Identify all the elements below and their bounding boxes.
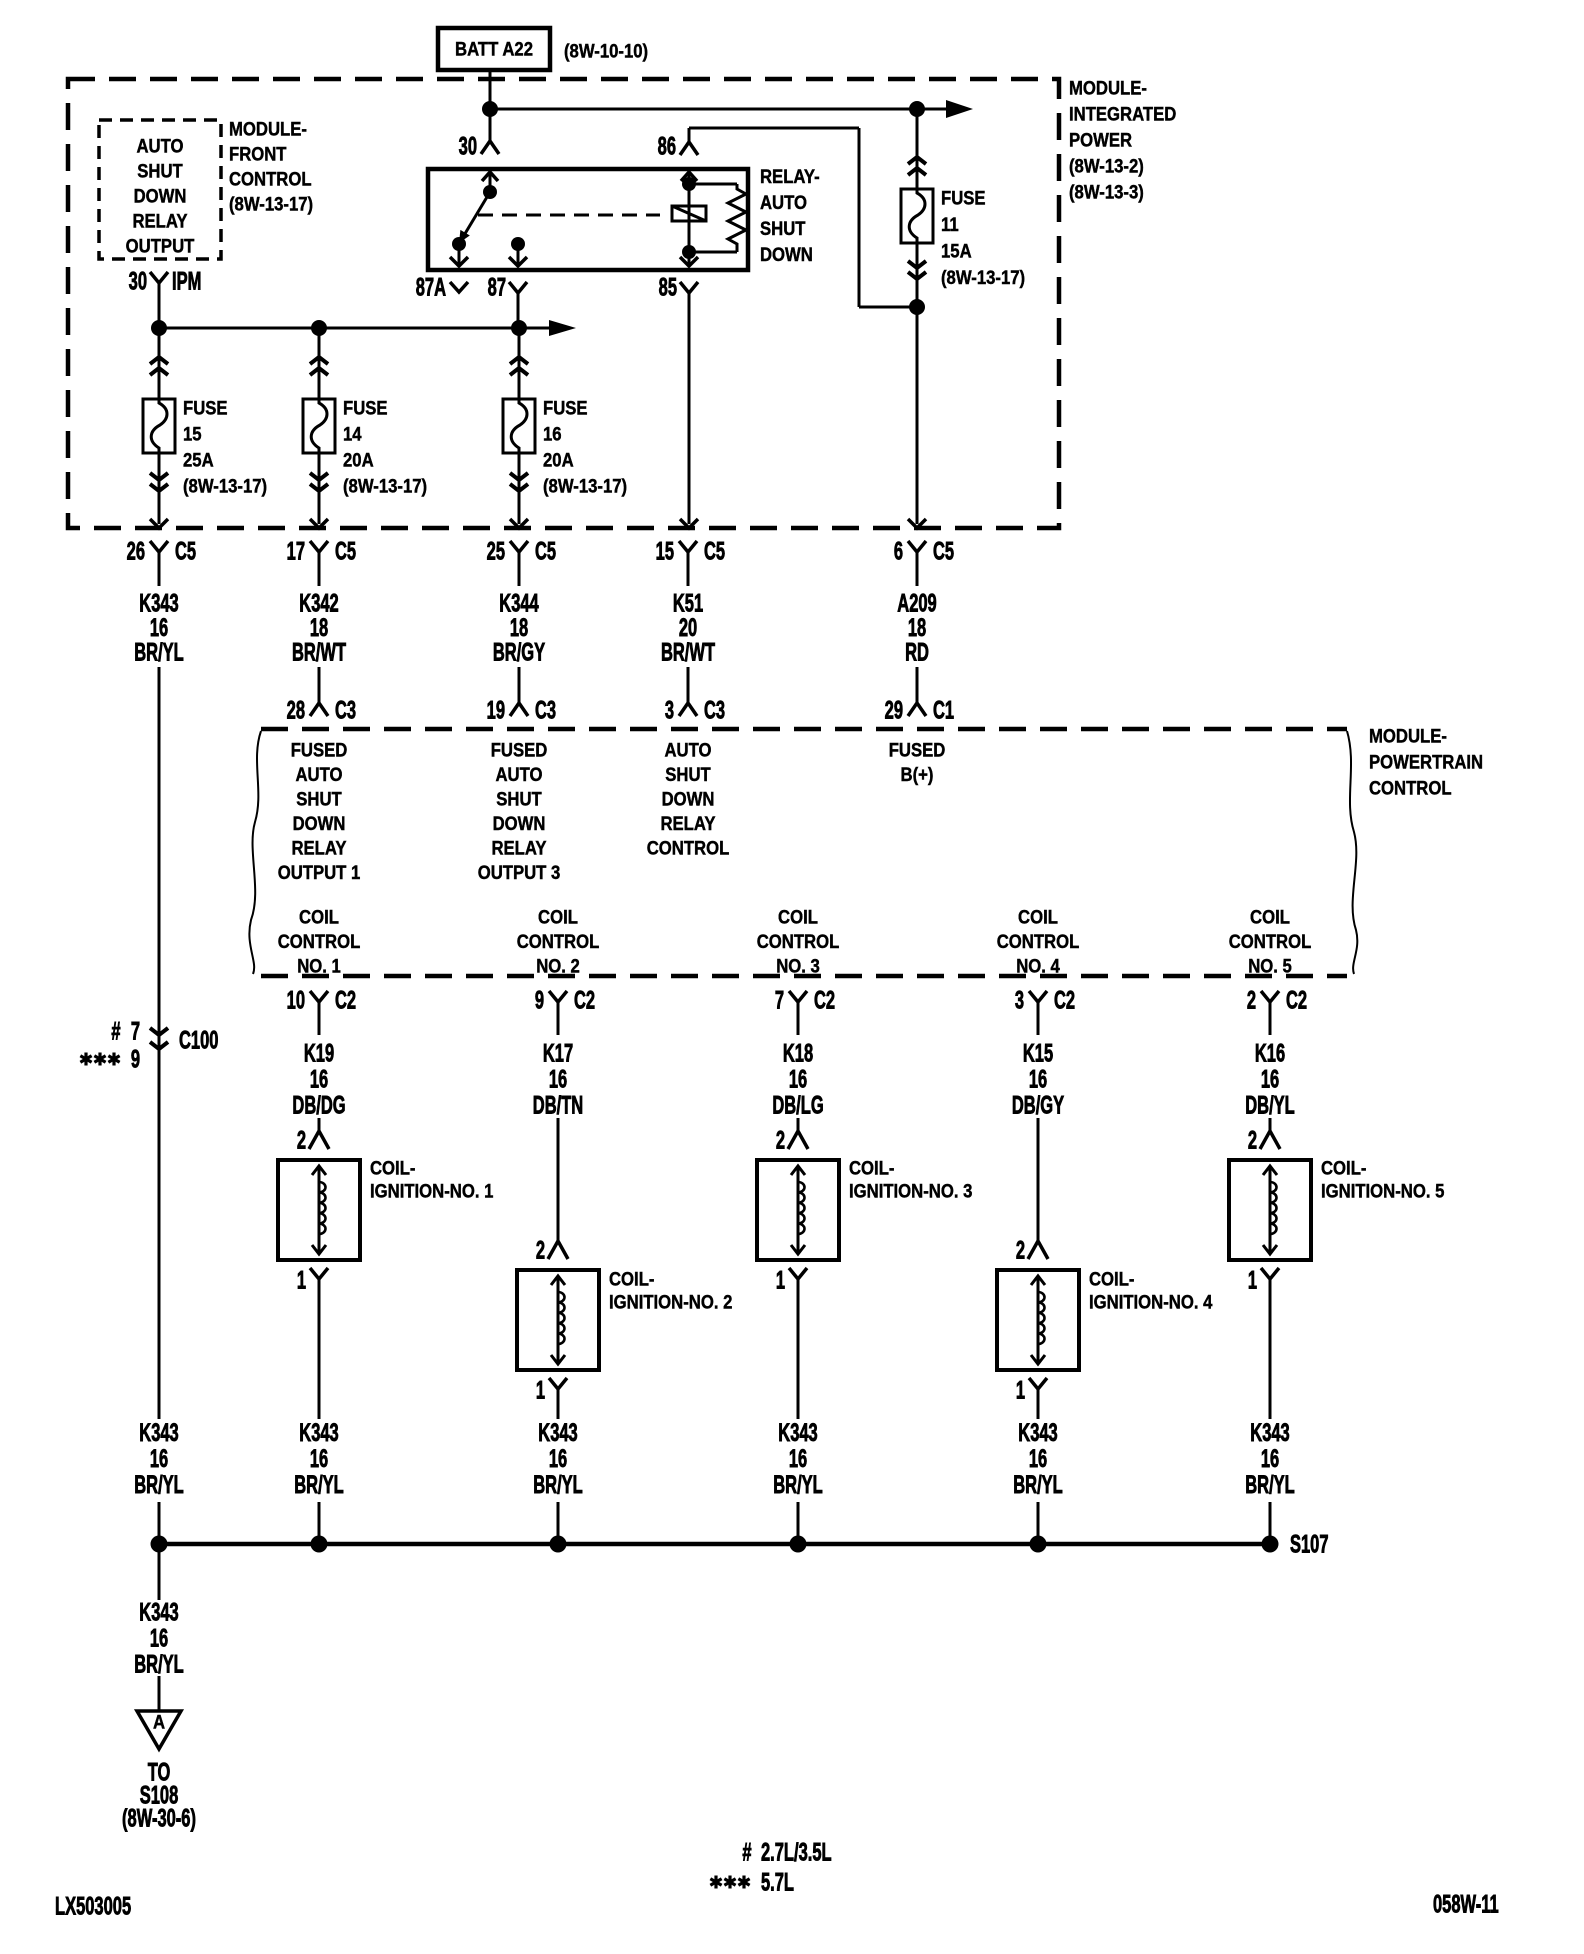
- svg-text:16: 16: [310, 1066, 329, 1093]
- wire label K343 BR/YL: [134, 590, 184, 666]
- wire label K343 BR/YL: [533, 1420, 583, 1499]
- svg-text:K51: K51: [673, 590, 703, 617]
- svg-text:(8W-30-6): (8W-30-6): [122, 1805, 196, 1832]
- splice S107 label: [1290, 1531, 1329, 1558]
- auto shut down relay output label box (IPM): [99, 120, 221, 259]
- PCM output label coil control no. 3: [757, 907, 840, 977]
- connector C2 pin 3: [1015, 987, 1075, 1035]
- svg-text:18: 18: [310, 615, 329, 642]
- svg-text:18: 18: [908, 615, 927, 642]
- coil 5 name label: [1321, 1158, 1444, 1202]
- svg-text:16: 16: [1261, 1446, 1280, 1473]
- svg-text:K343: K343: [139, 1599, 179, 1626]
- relay wire to pin 87 with arrow: [509, 244, 527, 266]
- sheet code LX503005: [55, 1893, 131, 1920]
- wire to splice S107 bus: [318, 1502, 321, 1544]
- PCM input label fused auto shut down relay output 3: [478, 740, 561, 884]
- svg-text:BR/YL: BR/YL: [134, 639, 184, 666]
- wire splice to K343 lower run: [158, 1544, 161, 1600]
- coil 2 name label: [609, 1269, 732, 1313]
- svg-text:FUSE: FUSE: [543, 398, 588, 419]
- wire label K343 BR/YL: [294, 1420, 344, 1499]
- fuse 14 symbol: [303, 399, 335, 453]
- wire label K343 BR/YL lower: [134, 1599, 184, 1678]
- relay wire to pin 85 with arrow: [680, 252, 698, 266]
- svg-text:28: 28: [287, 697, 306, 724]
- svg-text:19: 19: [487, 697, 505, 724]
- svg-text:FUSED: FUSED: [491, 740, 548, 761]
- svg-text:BR/WT: BR/WT: [661, 639, 715, 666]
- ignition coil no. 5 (COIL-IGNITION-NO. 5): [1229, 1160, 1311, 1260]
- svg-text:FUSED: FUSED: [889, 740, 946, 761]
- connector chevrons above fuse 11: [908, 157, 926, 175]
- svg-text:NO. 3: NO. 3: [776, 956, 820, 977]
- node B2 junction dot at fuse 11 feed: [909, 101, 925, 117]
- svg-text:FUSE: FUSE: [343, 398, 388, 419]
- relay pin 87A connector: [416, 274, 468, 301]
- wire fuse 15 to connector C5: [158, 453, 161, 524]
- relay internal node dot pin85: [682, 245, 696, 259]
- legend # 2.7L/3.5L: [742, 1839, 831, 1866]
- svg-text:20A: 20A: [543, 450, 574, 471]
- svg-text:MODULE-: MODULE-: [1369, 726, 1447, 747]
- off-page connector A triangle: [137, 1711, 181, 1749]
- svg-text:18: 18: [510, 615, 529, 642]
- ignition coil no. 2 (COIL-IGNITION-NO. 2): [517, 1270, 599, 1370]
- svg-text:COIL-: COIL-: [1089, 1269, 1134, 1290]
- coil 3 name label: [849, 1158, 972, 1202]
- wire label K51 BR/WT: [661, 590, 715, 666]
- IPM pin 30 connector: [129, 268, 202, 295]
- svg-text:FUSED: FUSED: [291, 740, 348, 761]
- connector C2 pin 2: [1247, 987, 1307, 1035]
- fuse 15 label: [183, 398, 267, 497]
- connector C100 chevrons: [150, 1028, 168, 1049]
- wire coil 3 pin 1 to splice: [797, 1308, 800, 1419]
- connector C3 pin 3: [665, 690, 725, 725]
- wire label K15 DB/GY: [1012, 1040, 1064, 1119]
- coil 1 pin 1 connector: [297, 1267, 328, 1308]
- svg-text:15: 15: [183, 424, 202, 445]
- svg-text:86: 86: [658, 133, 677, 160]
- svg-text:C5: C5: [535, 538, 556, 565]
- wire label K344 BR/GY: [493, 590, 545, 666]
- splice junction dot: [550, 1536, 567, 1553]
- svg-text:C3: C3: [704, 697, 725, 724]
- svg-text:CONTROL: CONTROL: [517, 931, 600, 952]
- connector chevrons above fuse 14: [310, 357, 328, 375]
- svg-text:30: 30: [459, 133, 477, 160]
- svg-text:DOWN: DOWN: [293, 813, 346, 834]
- wire label A209 RD: [897, 590, 936, 666]
- module-integrated power dashed enclosure: [68, 79, 1059, 528]
- svg-text:15A: 15A: [941, 241, 972, 262]
- coil 4 pin 2 connector: [1016, 1237, 1048, 1264]
- svg-text:(8W-13-17): (8W-13-17): [543, 476, 627, 497]
- wire to ignition coil 3 pin 2: [797, 1118, 800, 1131]
- wire label K17 DB/TN: [533, 1040, 583, 1119]
- svg-text:16: 16: [549, 1446, 568, 1473]
- svg-text:CONTROL: CONTROL: [757, 931, 840, 952]
- relay coil vertical wire: [688, 184, 691, 252]
- arrow fuse 11 wire at border: [908, 519, 926, 528]
- svg-text:6: 6: [894, 538, 903, 565]
- relay control dashed linkage: [478, 214, 660, 217]
- svg-text:K343: K343: [1018, 1420, 1058, 1447]
- coil 3 pin 1 connector: [776, 1267, 807, 1308]
- svg-text:NO. 1: NO. 1: [297, 956, 341, 977]
- svg-text:9: 9: [131, 1046, 140, 1073]
- svg-text:K343: K343: [538, 1420, 578, 1447]
- node B1 junction dot: [482, 101, 498, 117]
- svg-text:NO. 2: NO. 2: [536, 956, 580, 977]
- wire to ignition coil 4 pin 2: [1037, 1118, 1040, 1241]
- svg-text:3: 3: [665, 697, 674, 724]
- node bus dot col A: [151, 320, 167, 336]
- svg-text:2.7L/3.5L: 2.7L/3.5L: [761, 1839, 832, 1866]
- connector C5 pin 26: [127, 538, 197, 586]
- wire to splice S107 bus: [557, 1502, 560, 1544]
- relay pin 85 connector: [659, 274, 698, 301]
- svg-text:C2: C2: [1286, 987, 1307, 1014]
- svg-text:K343: K343: [299, 1420, 339, 1447]
- reference label (8W-10-10): [564, 41, 648, 62]
- svg-text:16: 16: [1029, 1446, 1048, 1473]
- connector C5 pin 15: [656, 538, 726, 586]
- svg-text:(8W-13-17): (8W-13-17): [183, 476, 267, 497]
- arrow fuse 14 wire at border: [310, 519, 328, 528]
- svg-text:1: 1: [776, 1267, 785, 1294]
- PCM output label auto shut down relay control: [647, 740, 730, 859]
- wire node B3 to connector C5-6: [916, 307, 919, 524]
- arrow fuse 16 wire at border: [510, 519, 528, 528]
- note marker # 7: [111, 1018, 140, 1045]
- svg-text:K343: K343: [778, 1420, 818, 1447]
- svg-text:5.7L: 5.7L: [761, 1869, 794, 1896]
- svg-text:16: 16: [549, 1066, 568, 1093]
- wire to connector C3 pin 3: [687, 667, 690, 702]
- splice S107 ground bus: [159, 1542, 1270, 1547]
- connector C100 label: [179, 1027, 218, 1054]
- svg-text:BR/YL: BR/YL: [1245, 1472, 1295, 1499]
- svg-text:C2: C2: [574, 987, 595, 1014]
- battery feed box BATT A22: [438, 28, 550, 70]
- svg-text:RD: RD: [905, 639, 929, 666]
- wire to connector C3 pin 28: [318, 667, 321, 702]
- svg-text:10: 10: [287, 987, 305, 1014]
- module-powertrain control torn right edge: [1347, 731, 1357, 974]
- relay K1 pin 30 connector: [459, 109, 499, 161]
- svg-text:#: #: [742, 1839, 751, 1866]
- svg-text:NO. 5: NO. 5: [1248, 956, 1292, 977]
- svg-text:(8W-13-2): (8W-13-2): [1069, 156, 1144, 177]
- svg-text:3: 3: [1015, 987, 1024, 1014]
- svg-text:K17: K17: [543, 1040, 573, 1067]
- wire to ignition coil 1 pin 2: [318, 1118, 321, 1131]
- svg-text:20: 20: [679, 615, 697, 642]
- svg-text:FUSE: FUSE: [941, 188, 986, 209]
- connector C3 pin 28: [287, 690, 357, 725]
- svg-text:IGNITION-NO. 4: IGNITION-NO. 4: [1089, 1292, 1212, 1313]
- svg-text:25A: 25A: [183, 450, 214, 471]
- node bus dot col B: [311, 320, 327, 336]
- splice junction dot: [1262, 1536, 1279, 1553]
- svg-text:K342: K342: [299, 590, 338, 617]
- svg-text:RELAY: RELAY: [660, 813, 715, 834]
- svg-text:16: 16: [150, 615, 169, 642]
- svg-text:29: 29: [885, 697, 903, 724]
- connector C1 pin 29: [885, 690, 955, 725]
- svg-text:16: 16: [1029, 1066, 1048, 1093]
- connector C5 pin 25: [487, 538, 557, 586]
- svg-text:16: 16: [150, 1625, 169, 1652]
- wire node B2 to fuse 11: [916, 109, 919, 189]
- coil 3 pin 2 connector: [776, 1127, 808, 1154]
- svg-text:BR/GY: BR/GY: [493, 639, 545, 666]
- svg-text:#: #: [111, 1018, 120, 1045]
- wire to off-page connector A: [158, 1676, 161, 1711]
- connector chevrons below fuse 14: [310, 473, 328, 491]
- relay K1 pin 86 internal arrow: [681, 172, 697, 184]
- splice junction dot: [311, 1536, 328, 1553]
- wire pin 85 to connector C5-15: [688, 293, 691, 524]
- svg-text:C5: C5: [335, 538, 356, 565]
- wire bus to fuse 16: [518, 328, 521, 399]
- fuse 16 label: [543, 398, 627, 497]
- svg-text:COIL: COIL: [538, 907, 578, 928]
- coil 4 name label: [1089, 1269, 1212, 1313]
- node B3 junction dot: [909, 299, 925, 315]
- svg-text:POWER: POWER: [1069, 130, 1132, 151]
- svg-text:AUTO: AUTO: [495, 764, 542, 785]
- splice junction dot: [1030, 1536, 1047, 1553]
- connector C3 pin 19: [487, 690, 557, 725]
- svg-text:SHUT: SHUT: [137, 161, 183, 182]
- svg-text:CONTROL: CONTROL: [1369, 778, 1452, 799]
- svg-text:COIL: COIL: [1250, 907, 1290, 928]
- svg-text:K344: K344: [499, 590, 539, 617]
- connector chevrons above fuse 15: [150, 357, 168, 375]
- arrow fuse 15 wire at border: [150, 519, 168, 528]
- svg-text:A: A: [153, 1712, 165, 1733]
- svg-text:OUTPUT 1: OUTPUT 1: [278, 862, 361, 883]
- connector C5 pin 6: [894, 538, 954, 586]
- svg-text:K343: K343: [139, 1420, 179, 1447]
- svg-text:INTEGRATED: INTEGRATED: [1069, 104, 1176, 125]
- svg-text:MODULE-: MODULE-: [229, 119, 307, 140]
- svg-text:058W-11: 058W-11: [1433, 1891, 1499, 1918]
- svg-text:DB/DG: DB/DG: [292, 1092, 345, 1119]
- wire bus to fuse 15: [158, 328, 161, 399]
- svg-text:15: 15: [656, 538, 675, 565]
- svg-text:DB/LG: DB/LG: [772, 1092, 823, 1119]
- wire bus to fuse 14: [318, 328, 321, 399]
- PCM output label coil control no. 4: [997, 907, 1080, 977]
- svg-text:K343: K343: [1250, 1420, 1290, 1447]
- svg-text:RELAY: RELAY: [291, 838, 346, 859]
- svg-text:14: 14: [343, 424, 362, 445]
- svg-text:SHUT: SHUT: [296, 789, 342, 810]
- svg-text:SHUT: SHUT: [760, 218, 806, 239]
- svg-text:COIL-: COIL-: [609, 1269, 654, 1290]
- svg-text:2: 2: [1247, 987, 1256, 1014]
- svg-text:(8W-13-3): (8W-13-3): [1069, 182, 1144, 203]
- svg-text:CONTROL: CONTROL: [997, 931, 1080, 952]
- wire to connector C3 pin 19: [518, 667, 521, 702]
- svg-text:IGNITION-NO. 1: IGNITION-NO. 1: [370, 1181, 493, 1202]
- PCM output label coil control no. 5: [1229, 907, 1312, 977]
- relay internal node dot pin86: [682, 177, 696, 191]
- svg-text:16: 16: [310, 1446, 329, 1473]
- svg-text:BR/YL: BR/YL: [134, 1472, 184, 1499]
- svg-text:11: 11: [941, 214, 959, 235]
- wire label K343 BR/YL: [1245, 1420, 1295, 1499]
- svg-text:30: 30: [129, 268, 147, 295]
- svg-text:B(+): B(+): [901, 764, 934, 785]
- svg-text:BR/YL: BR/YL: [533, 1472, 583, 1499]
- wire BATT A22 to node B1: [489, 70, 492, 109]
- svg-text:LX503005: LX503005: [55, 1893, 131, 1920]
- wire label K343 BR/YL: [1013, 1420, 1063, 1499]
- svg-text:(8W-10-10): (8W-10-10): [564, 41, 648, 62]
- svg-text:DOWN: DOWN: [493, 813, 546, 834]
- fused output bus with arrow: [159, 320, 576, 336]
- svg-text:CONTROL: CONTROL: [278, 931, 361, 952]
- svg-text:RELAY-: RELAY-: [760, 166, 820, 187]
- module-powertrain control torn left edge: [249, 731, 261, 974]
- svg-text:COIL: COIL: [1018, 907, 1058, 928]
- wire to ignition coil 5 pin 2: [1269, 1118, 1272, 1131]
- svg-text:DOWN: DOWN: [662, 789, 715, 810]
- relay coil element: [672, 206, 706, 221]
- fuse 14 label: [343, 398, 427, 497]
- svg-text:OUTPUT 3: OUTPUT 3: [478, 862, 561, 883]
- svg-text:16: 16: [150, 1446, 169, 1473]
- legend *** 5.7L: [710, 1869, 794, 1896]
- svg-text:16: 16: [789, 1066, 808, 1093]
- svg-text:C2: C2: [1054, 987, 1075, 1014]
- connector C2 pin 9: [535, 987, 595, 1035]
- svg-text:C5: C5: [704, 538, 725, 565]
- svg-text:BR/WT: BR/WT: [292, 639, 346, 666]
- relay pin 86 connector: [658, 128, 698, 161]
- coil 5 pin 2 connector: [1248, 1127, 1280, 1154]
- fuse 11 symbol: [901, 189, 933, 243]
- wire IPM pin 30 to output bus: [158, 283, 161, 328]
- svg-text:BATT A22: BATT A22: [455, 39, 533, 60]
- wire pin 87 to output bus: [517, 293, 520, 328]
- svg-text:NO. 4: NO. 4: [1016, 956, 1060, 977]
- wire to ignition coil 2 pin 2: [557, 1118, 560, 1241]
- svg-text:A209: A209: [897, 590, 936, 617]
- coil 2 pin 1 connector: [536, 1377, 567, 1419]
- relay internal node dot 87A side: [452, 237, 466, 251]
- svg-text:COIL: COIL: [299, 907, 339, 928]
- wire label K18 DB/LG: [772, 1040, 823, 1119]
- PCM output label coil control no. 1: [278, 907, 361, 977]
- wire label K16 DB/YL: [1245, 1040, 1295, 1119]
- wire to splice S107 bus: [1269, 1502, 1272, 1544]
- arrow pin85 wire at border: [680, 519, 698, 528]
- wire top feed bus with arrow: [490, 100, 973, 118]
- svg-text:C5: C5: [175, 538, 196, 565]
- auto shut down relay output text: [126, 136, 195, 257]
- svg-text:SHUT: SHUT: [496, 789, 542, 810]
- wire fuse 11 to node B3: [916, 243, 919, 307]
- svg-text:2: 2: [1248, 1127, 1257, 1154]
- svg-text:DB/TN: DB/TN: [533, 1092, 583, 1119]
- wire label K342 BR/WT: [292, 590, 346, 666]
- wire K343 col A long run: [158, 667, 161, 1419]
- svg-text:FRONT: FRONT: [229, 144, 287, 165]
- svg-text:C2: C2: [814, 987, 835, 1014]
- module-powertrain control title: [1369, 726, 1483, 799]
- svg-text:26: 26: [127, 538, 146, 565]
- svg-text:IGNITION-NO. 3: IGNITION-NO. 3: [849, 1181, 972, 1202]
- svg-text:RELAY: RELAY: [491, 838, 546, 859]
- svg-text:2: 2: [1016, 1237, 1025, 1264]
- svg-text:16: 16: [789, 1446, 808, 1473]
- svg-text:C3: C3: [535, 697, 556, 724]
- PCM output label coil control no. 2: [517, 907, 600, 977]
- svg-text:C2: C2: [335, 987, 356, 1014]
- relay K1 pin 30 internal arrow: [482, 172, 498, 192]
- svg-text:COIL-: COIL-: [370, 1158, 415, 1179]
- svg-text:(8W-13-17): (8W-13-17): [941, 267, 1025, 288]
- PCM input label fused auto shut down relay output 1: [278, 740, 361, 884]
- wire label K343 BR/YL: [134, 1420, 184, 1499]
- wire label K343 BR/YL: [773, 1420, 823, 1499]
- svg-text:DOWN: DOWN: [134, 186, 187, 207]
- svg-text:2: 2: [536, 1237, 545, 1264]
- connector chevrons below fuse 16: [510, 473, 528, 491]
- connector C5 pin 17: [287, 538, 357, 586]
- svg-text:1: 1: [536, 1377, 545, 1404]
- wire coil 1 pin 1 to splice: [318, 1308, 321, 1419]
- svg-text:S107: S107: [1290, 1531, 1329, 1558]
- svg-text:BR/YL: BR/YL: [134, 1651, 184, 1678]
- svg-text:AUTO: AUTO: [136, 136, 183, 157]
- svg-text:(8W-13-17): (8W-13-17): [343, 476, 427, 497]
- svg-text:K15: K15: [1023, 1040, 1053, 1067]
- svg-text:CONTROL: CONTROL: [1229, 931, 1312, 952]
- module-integrated power title: [1069, 78, 1176, 203]
- svg-text:85: 85: [659, 274, 678, 301]
- svg-text:OUTPUT: OUTPUT: [126, 236, 195, 257]
- relay internal node dot pin30: [483, 185, 497, 199]
- svg-text:K16: K16: [1255, 1040, 1285, 1067]
- ignition coil no. 3 (COIL-IGNITION-NO. 3): [757, 1160, 839, 1260]
- node bus dot col C: [511, 320, 527, 336]
- coil 2 pin 2 connector: [536, 1237, 568, 1264]
- svg-text:DB/GY: DB/GY: [1012, 1092, 1064, 1119]
- destination label TO S108: [122, 1759, 196, 1832]
- svg-text:CONTROL: CONTROL: [647, 838, 730, 859]
- wire fuse 14 to connector C5: [318, 453, 321, 524]
- svg-text:20A: 20A: [343, 450, 374, 471]
- svg-text:K343: K343: [139, 590, 179, 617]
- module-powertrain control dashed bottom border: [261, 974, 1347, 979]
- sheet code 058W-11: [1433, 1891, 1499, 1918]
- svg-text:CONTROL: CONTROL: [229, 169, 312, 190]
- svg-text:87A: 87A: [416, 274, 446, 301]
- svg-text:17: 17: [287, 538, 305, 565]
- coil 5 pin 1 connector: [1248, 1267, 1279, 1308]
- svg-text:7: 7: [131, 1018, 140, 1045]
- wire pin 86 to fused feed: [689, 128, 917, 307]
- svg-text:C5: C5: [933, 538, 954, 565]
- svg-text:7: 7: [775, 987, 784, 1014]
